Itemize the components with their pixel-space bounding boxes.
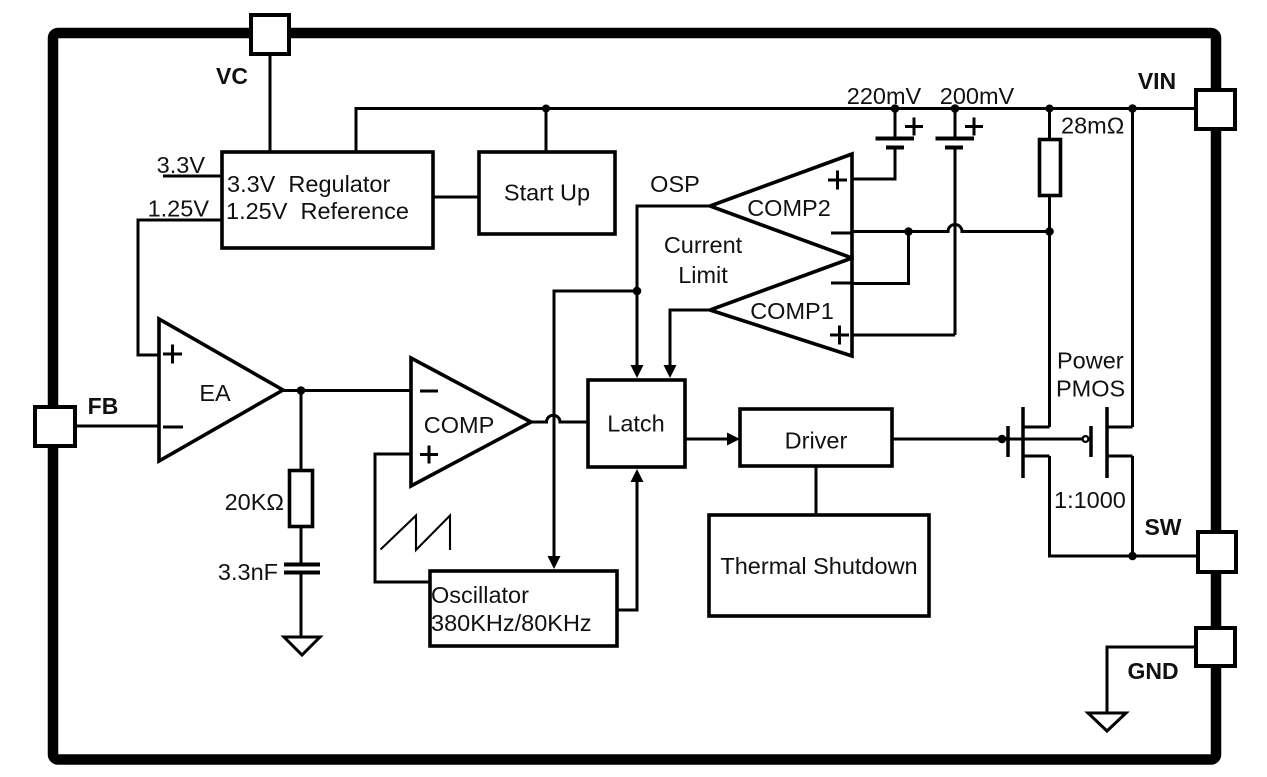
- pad VC: [251, 15, 289, 54]
- wire: junction down to Latch top: [636, 291, 639, 366]
- arrowhead into Driver left: [727, 433, 740, 446]
- junction: gate wire node: [998, 435, 1007, 444]
- junction: bus / 28mohm resistor: [1046, 105, 1054, 113]
- svg-text:3.3V Regulator: 3.3V Regulator: [227, 171, 390, 197]
- svg-text:1.25V: 1.25V: [148, 196, 210, 222]
- wire: COMP output to Latch (with hop): [531, 415, 588, 422]
- transistor Q1 PMOS sense: [1006, 426, 1010, 457]
- svg-text:Current: Current: [664, 232, 743, 258]
- wire: battery to COMP2 + input: [852, 149, 895, 179]
- wire: COMP2 - input to 28mohm node (with hop): [852, 225, 1050, 232]
- wire: OSP from COMP2 apex: [637, 206, 710, 291]
- svg-text:EA: EA: [199, 380, 231, 406]
- junction: OSP branch node: [633, 287, 642, 296]
- wire: regulator to Start Up: [433, 196, 479, 199]
- wire: FB pad to EA - input: [73, 425, 159, 428]
- block: Driver: [740, 409, 892, 466]
- block: Oscillator: [430, 571, 617, 646]
- wire: 3.3V stub: [163, 175, 222, 178]
- junction: bus / 220mV battery: [891, 104, 900, 113]
- junction: EA output node: [297, 386, 306, 395]
- junction: bus / Start Up drop: [542, 105, 550, 113]
- battery B2 200mV plates: [936, 139, 975, 148]
- arrowhead into Latch top (from OSP line): [631, 365, 644, 378]
- sawtooth waveform: [381, 516, 451, 551]
- block: Thermal Shutdown: [709, 515, 929, 616]
- battery B2 plus sign: [965, 118, 983, 136]
- comparator COMP2: [710, 154, 852, 258]
- wire: left PMOS drain to SW: [1050, 456, 1133, 556]
- wire: cap to ground: [300, 574, 303, 636]
- comparator COMP: [411, 358, 531, 486]
- svg-text:SW: SW: [1144, 514, 1181, 540]
- comparator COMP1: [710, 258, 852, 356]
- wire: EA output to COMP - input: [283, 389, 411, 392]
- wire: COMP1 - input riser: [852, 232, 909, 284]
- wire: 20K resistor to 3.3nF cap: [300, 528, 303, 563]
- svg-text:OSP: OSP: [650, 171, 700, 197]
- wire: junction to oscillator top: [554, 291, 637, 556]
- wire: right PMOS drain to SW pad: [1133, 456, 1199, 556]
- svg-text:Limit: Limit: [678, 262, 728, 288]
- svg-text:COMP: COMP: [424, 412, 495, 438]
- wire: 220mV battery drop: [894, 109, 897, 137]
- junction: bus / 200mV battery: [951, 104, 960, 113]
- svg-text:200mV: 200mV: [940, 83, 1015, 109]
- svg-text:Thermal Shutdown: Thermal Shutdown: [720, 553, 917, 579]
- wire: top bus from regulator to VIN: [356, 109, 1196, 153]
- junction: bus / PMOS source: [1128, 104, 1137, 113]
- junction: COMP1 minus branch: [904, 227, 913, 236]
- block: Latch: [588, 380, 685, 467]
- svg-text:GND: GND: [1127, 658, 1178, 684]
- block: 3.3V Regulator / 1.25V Reference: [222, 152, 433, 248]
- pad FB: [35, 407, 75, 446]
- wire: EA output down to 20K resistor: [300, 391, 303, 470]
- svg-text:28mΩ: 28mΩ: [1061, 113, 1124, 139]
- wire: battery 200mV down to COMP1 + input: [852, 149, 955, 335]
- arrowhead into Latch top (from COMP1): [664, 365, 677, 378]
- wire: COMP + feedback to oscillator: [375, 454, 430, 582]
- wire: bus drop to Start Up: [545, 109, 548, 153]
- arrowhead into Oscillator top: [548, 556, 561, 569]
- svg-text:380KHz/80KHz: 380KHz/80KHz: [431, 610, 592, 636]
- wire: Driver to Thermal Shutdown: [815, 466, 818, 515]
- block: Start Up: [479, 152, 615, 234]
- transistor Q2 PMOS power: [1083, 436, 1089, 442]
- svg-text:VIN: VIN: [1138, 68, 1176, 94]
- wire: 1.25V line to EA + input: [138, 220, 222, 355]
- svg-text:Start Up: Start Up: [504, 180, 590, 206]
- junction: sense node below 28mohm: [1045, 227, 1054, 236]
- junction: SW node: [1128, 552, 1137, 561]
- svg-text:220mV: 220mV: [847, 83, 922, 109]
- svg-text:VC: VC: [216, 63, 248, 89]
- svg-text:3.3V: 3.3V: [157, 152, 206, 178]
- wire: Driver to PMOS gates: [892, 438, 1082, 441]
- svg-text:Latch: Latch: [607, 411, 665, 437]
- pad GND: [1196, 628, 1235, 666]
- capacitor C1 3.3nF: [284, 565, 320, 573]
- battery B1 220mV plates: [876, 139, 915, 148]
- svg-text:Power: Power: [1057, 348, 1124, 374]
- svg-text:3.3nF: 3.3nF: [218, 559, 278, 585]
- svg-text:20KΩ: 20KΩ: [225, 489, 284, 515]
- svg-text:Driver: Driver: [785, 428, 848, 454]
- resistor R1 20KOhm: [290, 471, 313, 527]
- resistor R2 28mOhm: [1040, 140, 1061, 196]
- svg-text:PMOS: PMOS: [1056, 376, 1125, 402]
- arrowhead into Latch bottom (from oscillator): [631, 469, 644, 482]
- wire: VC pad to regulator top: [269, 54, 272, 152]
- pad SW: [1198, 532, 1236, 572]
- svg-text:COMP2: COMP2: [747, 195, 831, 221]
- pad VIN: [1196, 90, 1235, 129]
- wire: 200mV battery drop: [954, 109, 957, 137]
- wire: bus to 28mohm resistor: [1048, 109, 1051, 139]
- ground symbol (GND pin): [1088, 713, 1126, 731]
- wire: Latch to Driver: [685, 438, 727, 441]
- wire: COMP1 apex to Latch top: [670, 310, 710, 366]
- wire: 28mohm down to left PMOS source: [1048, 197, 1051, 427]
- wire: oscillator to Latch bottom: [617, 482, 637, 610]
- svg-text:1.25V Reference: 1.25V Reference: [226, 198, 409, 224]
- svg-text:Oscillator: Oscillator: [431, 582, 529, 608]
- wire: right PMOS source to bus: [1131, 109, 1134, 428]
- svg-text:FB: FB: [88, 393, 119, 419]
- svg-text:COMP1: COMP1: [750, 298, 834, 324]
- svg-text:1:1000: 1:1000: [1054, 487, 1126, 513]
- op-amp EA: [159, 319, 283, 461]
- ground symbol (below cap): [284, 637, 320, 655]
- battery B1 plus sign: [905, 118, 923, 136]
- wire: GND pad to ground symbol: [1107, 647, 1196, 712]
